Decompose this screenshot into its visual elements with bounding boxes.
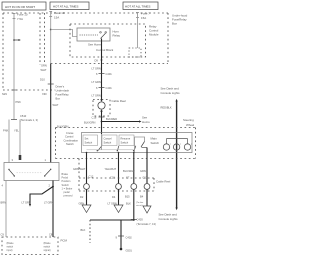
svg-text:BLK/RED: BLK/RED bbox=[106, 117, 117, 121]
wire horn to steering wheel bbox=[101, 120, 142, 122]
svg-text:Fuse 7: Fuse 7 bbox=[141, 12, 150, 16]
dashed boundary top bbox=[3, 12, 168, 14]
wire fuse7 to control block bbox=[137, 18, 139, 49]
PCM box bbox=[2, 237, 58, 255]
header box HOT AT ALL TIMES (left) bbox=[50, 2, 89, 10]
wire pin2 to PCM bbox=[52, 181, 54, 238]
cable reel box upper bbox=[93, 100, 110, 117]
svg-text:Console Lights: Console Lights bbox=[159, 217, 179, 221]
wire under-dash feed bbox=[50, 64, 52, 163]
cancel switch bbox=[102, 135, 119, 151]
svg-text:X30: X30 bbox=[42, 92, 47, 96]
svg-text:Pedal: Pedal bbox=[62, 177, 69, 180]
wire resume down bbox=[133, 189, 135, 219]
svg-text:Console Lights: Console Lights bbox=[161, 91, 181, 95]
connector C401 upper bbox=[96, 72, 112, 76]
relay control module label bbox=[149, 25, 159, 37]
svg-text:Fuse 10: Fuse 10 bbox=[54, 11, 65, 15]
wire cancel to ground bbox=[118, 189, 120, 205]
wire main switch output bbox=[146, 153, 148, 184]
svg-text:YEL: YEL bbox=[14, 129, 19, 133]
svg-text:C402: C402 bbox=[126, 236, 133, 240]
svg-text:BLK/GRN: BLK/GRN bbox=[57, 125, 69, 129]
svg-text:D4: D4 bbox=[112, 195, 116, 199]
under-hood box right edge bbox=[167, 13, 169, 64]
svg-text:1 = Brake: 1 = Brake bbox=[62, 187, 73, 190]
svg-text:B4: B4 bbox=[140, 195, 144, 199]
svg-text:See: See bbox=[142, 116, 148, 120]
svg-text:Fuse/Relay: Fuse/Relay bbox=[56, 93, 70, 97]
cable reel ring resume bbox=[131, 184, 137, 190]
wire set to ground bbox=[86, 189, 88, 205]
svg-text:LT GRN: LT GRN bbox=[92, 67, 101, 71]
svg-text:Resume: Resume bbox=[121, 136, 131, 140]
branch arrow on fuse10 wire bbox=[13, 39, 21, 41]
PCM pin label right bbox=[44, 242, 52, 252]
ground G501 bbox=[120, 248, 133, 253]
svg-text:PCM: PCM bbox=[61, 239, 68, 243]
dashed ground stub bbox=[89, 220, 91, 243]
svg-text:Module: Module bbox=[149, 33, 159, 37]
connector C403 bbox=[131, 218, 156, 227]
svg-text:Switch: Switch bbox=[121, 140, 129, 144]
svg-text:BLU/WHT: BLU/WHT bbox=[123, 169, 135, 173]
svg-text:BLK: BLK bbox=[126, 202, 131, 206]
steering wheel label bbox=[183, 118, 195, 127]
brake switch contact left bbox=[8, 169, 15, 177]
svg-text:Cable Reel: Cable Reel bbox=[156, 180, 171, 184]
see dash and console lights (top) bbox=[161, 87, 181, 96]
svg-text:B15: B15 bbox=[125, 195, 130, 199]
svg-text:Relay: Relay bbox=[113, 34, 121, 38]
horn relay coil bbox=[80, 34, 99, 36]
driver's under-dash box label bbox=[56, 85, 70, 101]
svg-text:Brake: Brake bbox=[62, 173, 69, 176]
svg-text:pressed: pressed bbox=[64, 195, 74, 198]
cable reel ring set bbox=[84, 184, 90, 190]
resume switch bbox=[119, 135, 136, 151]
svg-text:C401: C401 bbox=[106, 72, 113, 76]
note label bbox=[136, 202, 143, 207]
fuse 7 bbox=[136, 12, 150, 21]
ground G502 bbox=[82, 205, 91, 213]
svg-text:Switch: Switch bbox=[104, 140, 112, 144]
PCM pin label left bbox=[7, 242, 15, 252]
see horns label right bbox=[142, 116, 150, 125]
relay control module dashed box bbox=[70, 24, 146, 57]
svg-text:See Horns: See Horns bbox=[88, 43, 102, 47]
svg-text:WHT: WHT bbox=[53, 103, 59, 107]
under-dash fuse box left edge bbox=[2, 13, 4, 90]
connector C510 bbox=[11, 114, 38, 122]
wire resume switch output bbox=[133, 153, 135, 184]
svg-text:D10: D10 bbox=[40, 78, 45, 82]
branch to brake lights bbox=[29, 186, 54, 207]
header box HOT IN ON OR START bbox=[2, 2, 46, 10]
svg-text:Set: Set bbox=[85, 136, 89, 140]
set switch bbox=[83, 135, 102, 151]
terminal tick bbox=[48, 83, 54, 85]
svg-text:HOT AT ALL TIMES: HOT AT ALL TIMES bbox=[53, 5, 78, 9]
wire pin4 to PCM bbox=[5, 181, 7, 238]
svg-text:Box: Box bbox=[172, 22, 178, 26]
cable reel box lower bbox=[79, 159, 154, 192]
ground G503 bbox=[114, 205, 123, 213]
svg-text:HOT IN ON OR START: HOT IN ON OR START bbox=[5, 5, 35, 9]
svg-text:BRN: BRN bbox=[1, 201, 7, 205]
svg-text:D9: D9 bbox=[95, 59, 99, 63]
svg-text:Box: Box bbox=[56, 97, 61, 101]
svg-text:signal): signal) bbox=[44, 249, 51, 252]
combination switch housing box bbox=[82, 133, 193, 153]
main switch bbox=[135, 137, 148, 153]
wire to G501 bbox=[120, 220, 122, 249]
svg-text:GRN: GRN bbox=[41, 64, 47, 68]
svg-text:Switch: Switch bbox=[151, 141, 160, 145]
terminal block bbox=[19, 155, 22, 160]
svg-text:Cancel: Cancel bbox=[104, 136, 112, 140]
svg-text:Fuse 10: Fuse 10 bbox=[17, 12, 28, 16]
svg-text:BLK: BLK bbox=[81, 228, 86, 232]
connector C18 bbox=[92, 116, 105, 120]
wire horn relay output bbox=[101, 39, 103, 99]
svg-text:(Terminals 1, 3): (Terminals 1, 3) bbox=[20, 118, 38, 122]
header box HOT AT ALL TIMES (right) bbox=[123, 2, 158, 10]
node junction at horn feed bbox=[50, 29, 52, 31]
svg-text:C403: C403 bbox=[137, 218, 144, 222]
svg-text:C15: C15 bbox=[110, 176, 115, 180]
svg-text:N29: N29 bbox=[2, 92, 7, 96]
svg-text:G501: G501 bbox=[126, 249, 133, 253]
svg-text:7.5A: 7.5A bbox=[17, 17, 23, 21]
svg-text:C9: C9 bbox=[1, 233, 5, 237]
svg-text:Horns: Horns bbox=[142, 120, 150, 124]
svg-text:PNK: PNK bbox=[16, 100, 22, 104]
svg-text:circuit): circuit) bbox=[136, 204, 143, 207]
wire fuse10 down bbox=[13, 19, 15, 120]
svg-text:15A: 15A bbox=[54, 15, 59, 19]
cable reel ring main bbox=[144, 184, 150, 190]
svg-text:PNK: PNK bbox=[3, 129, 9, 133]
illumination bulbs bbox=[163, 139, 191, 151]
svg-text:Cable Reel: Cable Reel bbox=[112, 99, 127, 103]
svg-text:See Dash and: See Dash and bbox=[159, 213, 178, 217]
svg-text:C13: C13 bbox=[143, 176, 148, 180]
wire C510 to brake switch pin 3 bbox=[8, 120, 10, 163]
svg-text:Control Block: Control Block bbox=[96, 48, 114, 52]
ground G504 bbox=[143, 206, 151, 213]
wire main to ground bbox=[146, 189, 148, 206]
svg-text:Under-dash: Under-dash bbox=[56, 89, 70, 93]
svg-text:(To dim: (To dim bbox=[136, 202, 143, 204]
svg-text:GRN: GRN bbox=[140, 169, 146, 173]
cruise control combination switch label bbox=[64, 131, 79, 146]
svg-text:YEL/WHT: YEL/WHT bbox=[105, 167, 117, 171]
svg-text:input): input) bbox=[7, 249, 13, 252]
horn relay box bbox=[77, 28, 110, 41]
svg-text:Driver's: Driver's bbox=[56, 85, 65, 89]
horn relay contacts bbox=[100, 32, 107, 39]
wire horn relay feed bbox=[51, 30, 77, 37]
svg-text:C7: C7 bbox=[126, 176, 130, 180]
svg-text:RED/BLK: RED/BLK bbox=[161, 106, 172, 110]
svg-text:Switch: Switch bbox=[85, 140, 93, 144]
svg-text:LT GRN: LT GRN bbox=[92, 80, 101, 84]
brake pedal position switch box bbox=[4, 163, 59, 181]
svg-text:(Terminals 7, 13): (Terminals 7, 13) bbox=[137, 222, 156, 226]
svg-text:15A: 15A bbox=[141, 16, 146, 20]
svg-text:Switch: Switch bbox=[66, 142, 74, 146]
horn relay label bbox=[113, 30, 121, 38]
svg-text:See Dash and: See Dash and bbox=[161, 87, 180, 91]
svg-text:Switch: Switch bbox=[62, 184, 70, 187]
svg-text:Position: Position bbox=[62, 180, 72, 183]
svg-text:LT GRN: LT GRN bbox=[44, 201, 53, 205]
mechanical link bbox=[17, 172, 43, 174]
cable reel ring cancel bbox=[116, 184, 122, 190]
terminal D9 bbox=[95, 59, 103, 63]
fuse 10 (driver's side) bbox=[13, 12, 28, 20]
svg-text:Combination: Combination bbox=[64, 138, 79, 142]
see dash and console lights (bottom) bbox=[159, 213, 179, 222]
wire fuse to junction bbox=[50, 17, 52, 64]
under-hood box label bbox=[172, 14, 188, 26]
under-dash fuse box right edge bbox=[39, 13, 41, 65]
wire C510 stub bbox=[19, 120, 21, 156]
svg-text:HOT AT ALL TIMES: HOT AT ALL TIMES bbox=[125, 5, 150, 9]
svg-text:Wheel: Wheel bbox=[186, 123, 195, 127]
wire down to combination switch bbox=[101, 122, 103, 135]
cable reel contact upper bbox=[98, 98, 105, 122]
svg-text:D2: D2 bbox=[80, 195, 84, 199]
wire dash lights vertical bbox=[176, 99, 178, 210]
under-hood box bottom edge bbox=[51, 63, 168, 65]
svg-text:C401: C401 bbox=[106, 86, 113, 90]
connector C402 bbox=[116, 236, 133, 240]
svg-text:WHT: WHT bbox=[41, 68, 47, 72]
brake switch label bbox=[62, 173, 74, 198]
brake switch contact right bbox=[44, 169, 51, 177]
svg-text:C8: C8 bbox=[49, 233, 53, 237]
main switch label bbox=[151, 137, 160, 146]
svg-text:LT GRN: LT GRN bbox=[22, 201, 31, 205]
control block inner dashed box bbox=[129, 48, 141, 57]
svg-text:pedal: pedal bbox=[64, 191, 71, 194]
svg-text:BLK/GRN: BLK/GRN bbox=[84, 121, 96, 125]
ground bus wire bbox=[90, 219, 134, 221]
terminal N29 bbox=[2, 90, 17, 96]
svg-text:Steering: Steering bbox=[183, 118, 194, 122]
under-hood box left edge bbox=[44, 13, 46, 62]
fuse 10 (under-hood) bbox=[49, 11, 65, 19]
wire cancel switch output bbox=[118, 153, 120, 184]
svg-text:C18: C18 bbox=[92, 116, 97, 120]
svg-text:C510: C510 bbox=[20, 114, 27, 118]
switch common bus bbox=[87, 149, 136, 151]
svg-text:Control: Control bbox=[65, 135, 74, 139]
svg-text:LT GRN: LT GRN bbox=[92, 94, 101, 98]
feed into switches bbox=[101, 134, 103, 150]
steering wheel dashed boundary box bbox=[56, 128, 197, 159]
svg-text:Main: Main bbox=[151, 137, 158, 141]
under-dash fuse box bottom edge bbox=[3, 89, 55, 91]
svg-text:Cruise: Cruise bbox=[66, 131, 74, 135]
connector C401 lower bbox=[96, 86, 112, 90]
wire set switch output bbox=[86, 153, 88, 184]
